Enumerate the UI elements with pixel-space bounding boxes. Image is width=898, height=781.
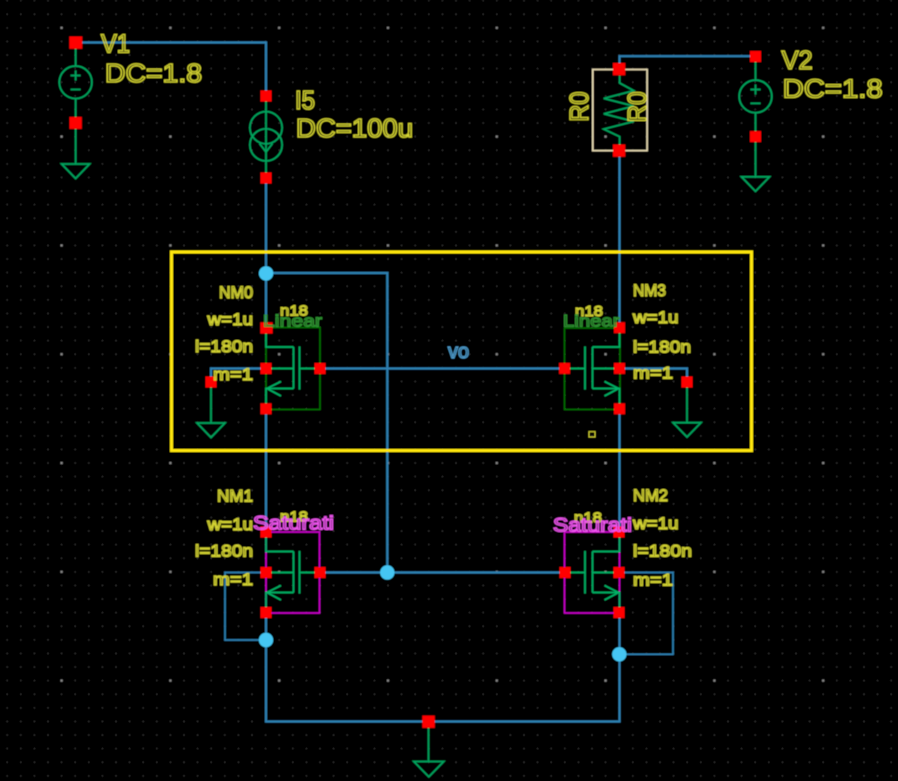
- pin I5 top: [261, 91, 272, 102]
- highlight rectangle: [172, 252, 752, 451]
- svg-text:m=1: m=1: [213, 570, 253, 589]
- pin NM2 bulk: [614, 567, 625, 578]
- wire NM2 source down: [618, 613, 620, 722]
- svg-text:NM1: NM1: [217, 487, 253, 506]
- wire NM2 bulk loop: [620, 573, 674, 655]
- svg-text:l=180n: l=180n: [633, 542, 692, 561]
- pin R0 bottom: [613, 145, 625, 157]
- node NM0 drain junction: [259, 266, 273, 280]
- pin V2 minus: [750, 131, 761, 142]
- ground below V2: [742, 177, 770, 191]
- node NM1 gate junction: [380, 565, 394, 579]
- svg-text:l=180n: l=180n: [195, 337, 253, 356]
- wire V1 top to I5 top: [76, 43, 266, 97]
- resistor R0: [593, 70, 647, 151]
- svg-text:vo: vo: [448, 341, 469, 363]
- svg-text:Linear: Linear: [563, 313, 620, 331]
- wire NM3 bulk to ground: [620, 369, 688, 383]
- svg-text:w=1u: w=1u: [206, 310, 253, 329]
- pin I5 bottom: [261, 173, 272, 184]
- wire NM1 gate to NM2 gate: [320, 571, 565, 573]
- pin NM2 drain: [614, 527, 625, 538]
- svg-text:NM0: NM0: [219, 283, 253, 302]
- pin NM3 gate: [559, 363, 570, 374]
- node NM2 source junction: [612, 647, 626, 661]
- transistor NM3: [565, 328, 621, 410]
- svg-text:m=1: m=1: [213, 365, 253, 384]
- wire I5 bottom to NM0 drain: [265, 178, 267, 328]
- svg-text:R0: R0: [564, 92, 594, 122]
- svg-text:w=1u: w=1u: [632, 514, 679, 533]
- pin bottom ground: [422, 716, 435, 728]
- svg-text:l=180n: l=180n: [633, 338, 691, 357]
- ground NM3 bulk: [673, 382, 701, 437]
- transistor NM2: [565, 532, 620, 613]
- pin NM1 bulk: [261, 567, 272, 578]
- svg-text:Linear: Linear: [263, 313, 323, 331]
- pin R0 top: [613, 63, 625, 75]
- svg-text:DC=100u: DC=100u: [296, 113, 413, 143]
- svg-text:NM3: NM3: [633, 281, 666, 300]
- wire NM3 source to NM2 drain: [618, 409, 620, 533]
- transistor NM1: [266, 532, 320, 613]
- voltage source V1: [59, 43, 92, 165]
- ground NM0 bulk: [197, 382, 225, 438]
- wire node branch to NM1 gate net: [266, 273, 387, 573]
- svg-text:DC=1.8: DC=1.8: [105, 58, 202, 88]
- pin NM0 gate: [315, 363, 326, 374]
- wire bottom ground rail: [265, 720, 621, 722]
- svg-text:DC=1.8: DC=1.8: [783, 74, 883, 104]
- origin marker square: [589, 432, 595, 437]
- wire NM1 source down: [265, 613, 267, 722]
- pin NM0 drain: [260, 322, 272, 333]
- svg-text:I5: I5: [295, 85, 315, 115]
- svg-text:l=180n: l=180n: [195, 542, 253, 561]
- wire NM0 source to NM1 drain: [265, 409, 267, 533]
- node NM1 source junction: [259, 633, 273, 647]
- voltage source V2: [739, 57, 772, 177]
- wire NM1 bulk loop: [225, 573, 266, 641]
- pin NM3 drain: [614, 322, 625, 333]
- svg-text:w=1u: w=1u: [206, 515, 253, 534]
- svg-text:Saturati: Saturati: [253, 514, 334, 535]
- transistor NM0: [266, 328, 320, 410]
- pin V2 plus: [750, 51, 761, 62]
- svg-text:V1: V1: [101, 28, 130, 58]
- ground below V1: [62, 164, 90, 179]
- pin NM3 source: [614, 403, 625, 414]
- svg-text:m=1: m=1: [633, 364, 673, 383]
- wire NM0 bulk to ground: [211, 369, 266, 383]
- pin NM3 bulk: [614, 363, 625, 374]
- svg-text:V2: V2: [782, 45, 813, 75]
- svg-text:w=1u: w=1u: [632, 308, 679, 327]
- wire NM3 drain to R0 bottom: [618, 150, 620, 328]
- svg-text:m=1: m=1: [633, 571, 673, 590]
- svg-text:R0: R0: [622, 91, 652, 122]
- ground bottom center: [414, 722, 444, 777]
- svg-text:NM2: NM2: [633, 486, 668, 505]
- pin NM1 gate: [315, 567, 326, 578]
- wire R0 top to V2 top: [620, 56, 756, 68]
- pin NM0 bulk ground: [206, 377, 217, 388]
- pin NM0 bulk: [261, 363, 272, 374]
- wire vo net NM0 gate to NM3 gate: [320, 367, 565, 369]
- pin V1 plus: [69, 37, 82, 49]
- pin NM2 source: [614, 607, 625, 618]
- current source I5: [250, 96, 282, 178]
- pin NM1 drain: [261, 527, 272, 538]
- pin NM0 source: [261, 403, 272, 414]
- pin V1 minus: [70, 117, 82, 129]
- pin NM1 source: [261, 607, 272, 618]
- svg-text:Saturati: Saturati: [553, 516, 632, 537]
- pin NM2 gate: [560, 567, 571, 578]
- pin NM3 bulk ground: [682, 377, 693, 388]
